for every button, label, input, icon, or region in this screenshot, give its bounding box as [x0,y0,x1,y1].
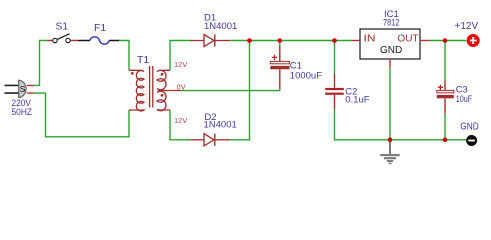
wire 0V line [181,89,280,91]
diode D2 1N4001 [190,112,236,146]
svg-text:0.1uF: 0.1uF [345,94,369,105]
terminal GND [460,122,479,146]
ground rail to GND terminal [390,139,466,141]
phase dot secondary bottom [161,94,164,97]
wire plug top to switch [34,41,48,86]
svg-text:S: S [20,84,26,94]
secondary winding upper [157,70,170,90]
pin OUT [420,40,431,42]
svg-text:7812: 7812 [383,18,400,29]
svg-text:GND: GND [460,122,479,133]
junction node: C3 on ground rail [443,138,448,143]
secondary winding lower [157,91,170,111]
svg-text:F1: F1 [94,22,106,34]
svg-text:GND: GND [380,45,402,56]
wire secondary top to D1 [170,41,191,71]
svg-text:+12V: +12V [455,21,479,32]
IC1 7812 regulator [352,9,431,68]
plug pin stubs [27,85,34,93]
phase dot secondary top [161,73,164,76]
junction node: C2 on rail [332,38,337,43]
wire plug bottom to transformer primary bottom [34,93,130,137]
switch S1 [48,20,79,42]
svg-text:1000uF: 1000uF [290,70,322,81]
wire D2 up to rail [230,41,249,140]
ground symbol [380,142,400,164]
plug J1 (220V mains) [5,80,27,97]
svg-text:1N4001: 1N4001 [204,119,237,130]
junction node: ground symbol [388,138,393,143]
pin IN [352,40,360,42]
wire IC GND down to ground rail [389,68,391,140]
capacitor C2 0.1uF [325,41,390,140]
wire D1 to rail [230,40,352,42]
svg-text:IN: IN [364,34,376,45]
phase dot primary [131,72,134,75]
svg-text:OUT: OUT [398,34,419,45]
svg-text:T1: T1 [137,54,149,66]
junction node: C3 on out rail [443,38,448,43]
wire secondary bottom to D2 [170,110,190,140]
junction node: C1 on rail [278,38,283,43]
core [150,66,153,108]
svg-text:12V: 12V [174,116,187,125]
wire OUT to +12V terminal [431,40,467,42]
primary winding [129,70,144,111]
junction node: D2 riser on rail [247,38,252,43]
capacitor C1 1000uF [270,41,322,89]
center tap stub [160,90,182,92]
svg-text:10uF: 10uF [456,94,473,105]
pin GND [389,59,391,68]
svg-text:50HZ: 50HZ [12,107,33,118]
svg-text:S1: S1 [56,20,69,32]
capacitor C3 10uF [437,41,473,140]
fuse F1 [78,22,119,44]
diode D1 1N4001 [191,13,238,47]
transformer T1 [129,54,187,125]
terminal +12V [455,21,480,47]
wire fuse to transformer primary top [119,41,129,71]
svg-text:1N4001: 1N4001 [204,21,237,32]
svg-text:12V: 12V [174,60,187,69]
